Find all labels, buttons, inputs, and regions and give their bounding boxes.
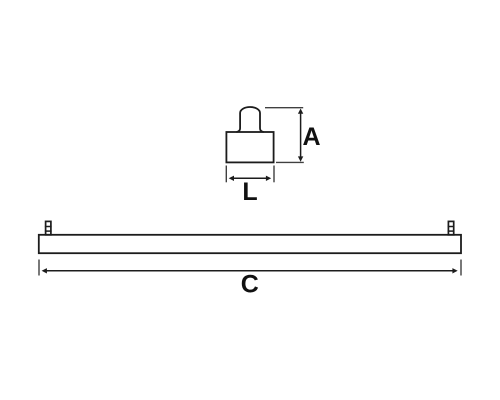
svg-text:C: C	[241, 271, 259, 299]
right pin thread line 1	[448, 226, 455, 228]
right pin thread line 2	[448, 230, 455, 232]
dimension A vertical line	[300, 111, 302, 159]
svg-text:A: A	[302, 123, 320, 151]
dimension A arrowhead up	[298, 109, 303, 114]
dimension A bottom extension line	[276, 161, 304, 163]
dimension C arrowhead left	[42, 268, 47, 273]
dimension L horizontal line	[231, 177, 269, 179]
lamp holder body (end view rectangle)	[226, 132, 273, 162]
dimension C horizontal line	[44, 270, 456, 272]
dimension L right extension line	[273, 166, 275, 183]
left pin thread line 2	[45, 230, 52, 232]
left pin body	[46, 221, 51, 234]
fixture bar (side view)	[39, 235, 461, 253]
dimension C left extension tick	[38, 260, 40, 276]
dimension L arrowhead left	[229, 176, 234, 181]
dimension A top extension line	[265, 107, 303, 109]
svg-text:L: L	[242, 178, 257, 206]
dimension C arrowhead right	[452, 268, 457, 273]
dimension L arrowhead right	[266, 176, 271, 181]
dimension L left extension line	[225, 166, 227, 183]
lamp holder dome	[237, 107, 263, 132]
dimension A arrowhead down	[298, 156, 303, 161]
right pin body	[448, 221, 453, 234]
left pin thread line 1	[45, 226, 52, 228]
dimension C right extension tick	[460, 260, 462, 276]
